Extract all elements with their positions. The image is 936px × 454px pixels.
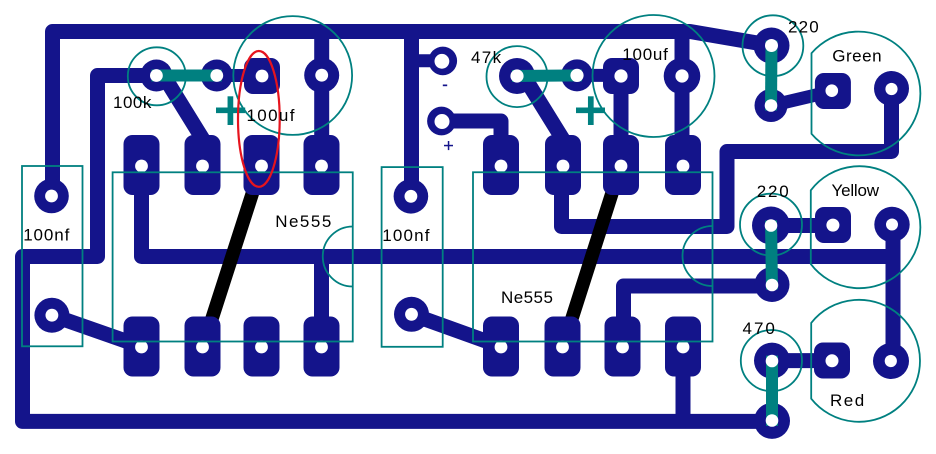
hole R1 left — [150, 69, 163, 82]
wire: C3 100nf bottom pad diagonal to U2 bottom pad1 — [412, 314, 502, 346]
supply plus round pad — [427, 107, 456, 136]
svg-text:100uf: 100uf — [622, 45, 668, 64]
outline IC U1 Ne555 rectangle — [113, 172, 353, 341]
outline LED Red circle with flat side — [811, 300, 920, 422]
resistor R2 47k left round pad — [499, 58, 535, 94]
hole C4 plus — [614, 69, 627, 82]
resistor R1 100k right round pad — [201, 60, 233, 92]
svg-text:Yellow: Yellow — [832, 181, 880, 200]
hole R3 top — [765, 39, 778, 52]
polarity plus mark C2 100uf — [216, 107, 245, 113]
wire: top V+ rail from C1 pad down-left corner, across top, diagonal to R3 220 top pad — [53, 32, 772, 197]
svg-text:Red: Red — [830, 391, 866, 410]
supply minus symbol — [443, 85, 447, 87]
hole Yellow round — [886, 219, 898, 231]
IC U1 top row pads 1-4 — [124, 135, 160, 195]
hole R4 bottom — [766, 279, 779, 292]
LED Red square pad — [814, 343, 850, 379]
wire: U2 top pad2 to Green LED round pad — [562, 89, 892, 227]
hole Red round — [885, 355, 897, 367]
IC U2 top row pads 1-4 — [483, 135, 519, 195]
outline IC U1 notch semicircle — [323, 227, 353, 287]
svg-text:100uf: 100uf — [247, 106, 296, 125]
svg-text:220: 220 — [788, 17, 820, 36]
capacitor C3 100nf top round pad — [394, 179, 429, 214]
capacitor C2 100uf minus round pad — [304, 58, 339, 93]
hole Green round — [885, 83, 897, 95]
wire: R3 220 bottom pad diagonal to Green LED square pad — [772, 91, 833, 106]
hole R3 bottom — [765, 99, 778, 112]
resistor R4 220 body bar — [771, 221, 772, 290]
svg-text:47k: 47k — [471, 48, 502, 67]
wire: ground run 100k left pad, left, down, left, down, bottom rail to R5 470 bottom pad — [23, 76, 773, 422]
capacitor C3 100nf bottom round pad — [394, 297, 429, 332]
hole Yellow square — [826, 219, 839, 232]
svg-text:Ne555: Ne555 — [275, 212, 333, 231]
wire: C4 100uf minus vertical from top rail to U2 top pad4 — [675, 32, 690, 166]
wire: R5 470 top pad to Red LED square pad — [772, 353, 832, 368]
resistor R3 220 top round pad — [754, 28, 790, 64]
resistor R3 220 body bar — [765, 41, 778, 111]
wire: U1 bottom pad4 up to long trace — [314, 257, 329, 347]
svg-text:100nf: 100nf — [23, 225, 70, 244]
svg-text:Green: Green — [832, 47, 882, 66]
resistor R5 470 bottom round pad — [754, 403, 790, 439]
outline resistor R3 220 circle — [743, 15, 804, 76]
resistor R5 470 top round pad — [754, 343, 790, 379]
supply minus round pad — [429, 47, 458, 76]
capacitor C4 100uf minus round pad — [664, 58, 701, 95]
outline resistor R2 47k circle — [487, 46, 548, 107]
outline capacitor C3 100nf rectangle — [382, 167, 443, 347]
resistor R1 100k left round pad — [140, 60, 172, 92]
wire: U2 bottom pad3 up and right to R4 220 bottom pad — [624, 286, 773, 347]
wire: C4 100uf plus pad down to U2 top pad3 — [614, 76, 629, 165]
wire: 100k left pad diagonal to U1 pin pad top2 — [164, 77, 212, 155]
capacitor C1 100nf bottom round pad — [34, 298, 69, 333]
wire: vertical linking Yellow LED pad to Red LED pad — [886, 225, 901, 362]
capacitor C4 100uf plus square pad — [603, 58, 639, 94]
hole C1 top — [45, 190, 58, 203]
wire: C2 100uf minus vertical from top rail to U1 top pad4 — [314, 32, 329, 166]
hole R2 left — [510, 69, 523, 82]
hole C1 bottom — [46, 309, 59, 322]
hole R1 right — [210, 69, 223, 82]
hole C3 bottom — [405, 308, 418, 321]
wire: C1 100nf bottom pad diagonal to U1 bottom pad1 — [52, 315, 142, 346]
hole R4 top — [765, 219, 778, 232]
polarity plus mark C4 100uf — [576, 107, 605, 113]
capacitor C1 100nf top round pad — [34, 179, 69, 214]
svg-text:470: 470 — [743, 319, 777, 338]
resistor R4 220 top round pad — [752, 207, 790, 245]
hole C4 minus — [675, 69, 688, 82]
outline resistor R5 470 circle — [741, 330, 802, 391]
hole supply plus — [435, 114, 450, 129]
outline IC U2 notch semicircle — [683, 226, 713, 286]
resistor R2 47k right round pad — [561, 59, 593, 91]
hole C2 minus — [315, 69, 328, 82]
svg-text:220: 220 — [757, 182, 791, 201]
IC U2 bottom row pads 1-4 — [483, 317, 519, 377]
wire: C3 100nf top pad stub up to top rail — [404, 32, 419, 197]
outline resistor R4 220 circle — [740, 194, 802, 256]
outline LED Yellow circle with flat side — [811, 166, 921, 288]
outline capacitor C1 100nf rectangle — [22, 166, 83, 346]
LED Green square pad — [815, 73, 851, 109]
svg-text:Ne555: Ne555 — [501, 288, 553, 307]
capacitor C2 100uf plus square pad — [244, 58, 280, 94]
outline capacitor C4 100uf circle — [593, 15, 715, 137]
wire: 100k right pad to C2 100uf plus pad — [217, 69, 262, 82]
holes U2 bottom row — [495, 341, 508, 354]
wire: 47k left pad diagonal to U2 top pad2 — [524, 77, 572, 155]
wire: long signal trace U1 top pad1 down and across to right vertical — [142, 165, 893, 257]
outline resistor R1 100k circle — [128, 47, 186, 105]
resistor R2 47k body bar — [512, 69, 582, 82]
LED Yellow round pad — [874, 207, 909, 242]
svg-text:100nf: 100nf — [382, 226, 431, 245]
svg-text:100k: 100k — [113, 93, 152, 112]
IC U1 bottom row pads 1-4 — [124, 317, 160, 377]
supply plus symbol — [444, 145, 453, 147]
holes U2 top row — [495, 160, 508, 173]
hole R5 top — [766, 355, 779, 368]
resistor R1 100k body bar — [151, 70, 221, 82]
hole Red square — [826, 354, 839, 367]
holes U1 top row — [135, 160, 148, 173]
jumper wire J1 black U1 top pad3 to U1 bottom pad2 — [203, 165, 262, 347]
jumper wire J2 black U2 top pad3 to U2 bottom pad2 — [563, 165, 621, 347]
hole R2 right — [570, 69, 583, 82]
wire: 47k right pad to C4 100uf plus pad — [577, 69, 621, 82]
outline LED Green circle with flat side — [812, 32, 921, 156]
wire: U2 bottom pad4 down to bottom rail — [676, 347, 691, 421]
hole C2 plus — [256, 70, 269, 83]
wire: minus pad stub — [412, 54, 443, 67]
outline IC U2 Ne555 rectangle — [473, 172, 713, 341]
hole C3 top — [405, 190, 418, 203]
hole supply minus — [435, 54, 450, 69]
resistor R4 220 bottom round pad — [755, 267, 790, 302]
resistor R3 220 bottom round pad — [755, 89, 788, 122]
resistor R5 470 body bar — [766, 356, 778, 426]
wire: R4 220 top pad to Yellow LED square pad — [771, 218, 833, 233]
annotation red ellipse around C2 plus pad and U1 pad — [238, 51, 280, 187]
hole R5 bottom — [766, 414, 779, 427]
LED Yellow square pad — [815, 207, 851, 243]
LED Red round pad — [873, 343, 909, 379]
outline capacitor C2 100uf circle — [233, 16, 352, 135]
hole Green square — [826, 84, 839, 97]
wire: plus pad trace to U2 top pad1 — [444, 121, 501, 165]
holes U1 bottom row — [135, 341, 148, 354]
LED Green round pad — [874, 71, 909, 106]
